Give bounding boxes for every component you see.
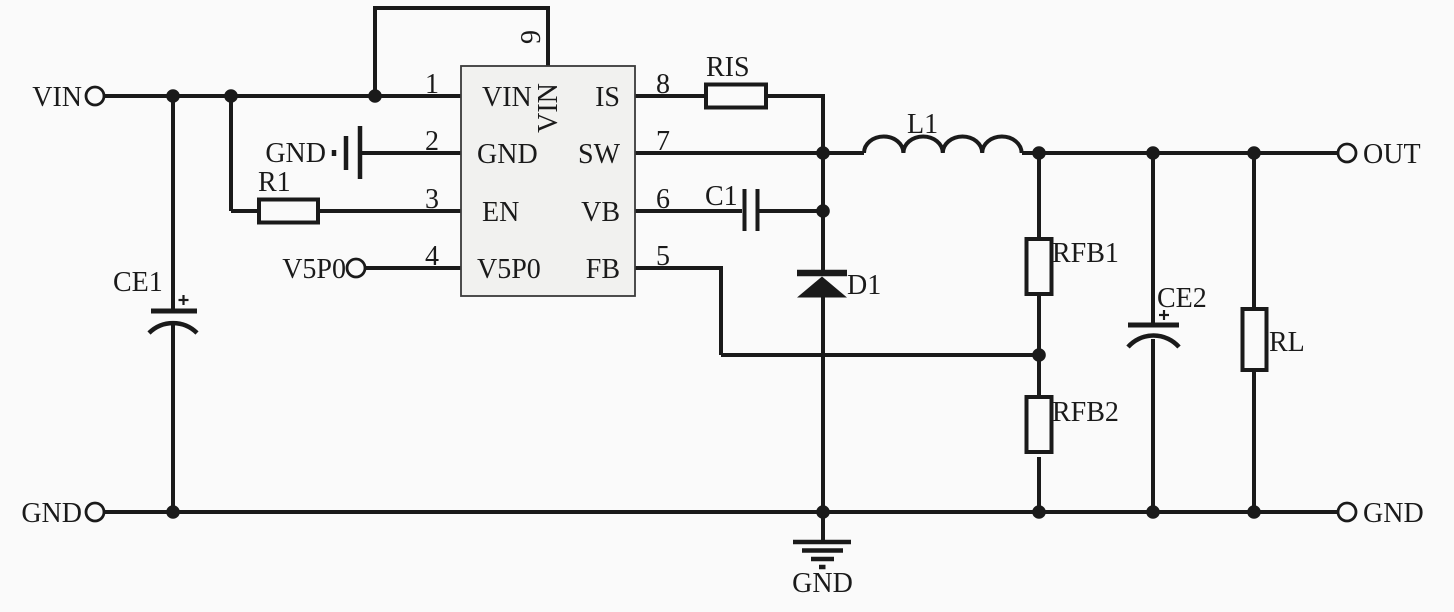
svg-text:VIN: VIN [482,82,532,113]
junction dot OUT-RFB1 [1032,146,1046,160]
wire V5P0 to pin 4 [365,266,461,270]
resistor R1 [259,200,318,223]
svg-text:VIN: VIN [533,83,564,133]
wire FB vertical [719,266,723,355]
terminal GND right [1338,503,1356,521]
junction dot OUT-CE2 [1146,146,1160,160]
svg-text:CE1: CE1 [113,267,163,298]
junction dot VIN-R1 [224,89,238,103]
capacitor C1 [745,189,758,231]
wire RFB1-RFB2 middle [1037,294,1041,397]
capacitor CE2 [1128,310,1179,347]
svg-text:GND: GND [265,138,326,169]
wire RL top lead [1252,153,1256,309]
ground symbol bottom [793,542,851,567]
wire top loop horizontal [373,6,550,10]
wire top loop vertical left [373,8,377,96]
wire R1 left lead [231,209,259,213]
svg-text:6: 6 [656,184,670,215]
wire R1 branch vertical [229,96,233,211]
wire pin 6 to C1 [635,209,742,213]
junction dot VIN-CE1 [166,89,180,103]
junction dot SW node [816,146,830,160]
svg-text:EN: EN [482,197,519,228]
wire CE1 bottom [171,325,175,512]
svg-text:IS: IS [595,82,620,113]
svg-text:GND: GND [1363,498,1424,529]
svg-text:SW: SW [578,139,621,170]
wire D1 anode down to ground rail [821,297,825,512]
wire RL bottom lead [1252,370,1256,512]
wire CE1 top [171,96,175,311]
svg-text:RIS: RIS [706,52,750,83]
wire RIS to corner [766,94,823,98]
svg-text:GND: GND [477,139,538,170]
junction dot GND-CE1 [166,505,180,519]
svg-text:9: 9 [516,30,547,44]
capacitor CE1 [149,295,197,333]
svg-text:V5P0: V5P0 [477,254,541,285]
terminal VIN [86,87,104,105]
svg-text:2: 2 [425,126,439,157]
svg-text:4: 4 [425,241,439,272]
resistor RFB1 [1027,239,1052,294]
svg-text:RFB2: RFB2 [1052,397,1119,428]
resistor RFB2 [1027,397,1052,452]
terminal GND left [86,503,104,521]
junction dot GND-RL [1247,505,1261,519]
junction dot GND-RFB2 [1032,505,1046,519]
junction dot VIN-top loop [368,89,382,103]
wire R1 right lead to pin 3 [318,209,461,213]
junction dot FB divider [1032,348,1046,362]
svg-text:D1: D1 [847,270,881,301]
svg-text:FB: FB [586,254,620,285]
svg-text:CE2: CE2 [1157,283,1207,314]
svg-text:OUT: OUT [1363,139,1421,170]
wire pin 7 SW to L1 [635,151,864,155]
wire pin 9 drop [546,6,550,66]
resistor RIS [706,85,766,108]
wire C1 to SW column [759,209,823,213]
wire RFB2 bottom lead [1037,457,1041,512]
wire pin 5 FB lead [635,266,721,270]
wire GND symbol to pin 2 [362,151,461,155]
svg-text:R1: R1 [258,167,291,198]
svg-text:VIN: VIN [32,82,82,113]
svg-text:7: 7 [656,126,670,157]
wire GND rail [104,510,1338,514]
wire ground stub [821,512,825,542]
junction dot GND-CE2 [1146,505,1160,519]
svg-text:1: 1 [425,69,439,100]
junction dot GND-D1 [816,505,830,519]
IC U1 body [461,66,635,296]
resistor RL [1243,309,1267,370]
diode D1 [797,273,847,298]
svg-text:8: 8 [656,69,670,100]
svg-text:5: 5 [656,241,670,272]
terminal OUT [1338,144,1356,162]
wire RIS corner down to SW node [821,94,825,153]
wire pin 8 to RIS [635,94,706,98]
wire CE2 bottom lead [1151,339,1155,512]
junction dot VB node [816,204,830,218]
wire SW node down to D1 cathode [821,153,825,271]
wire CE2 top lead [1151,153,1155,325]
svg-text:3: 3 [425,184,439,215]
wire L1 to OUT [1022,151,1338,155]
terminal V5P0 [347,259,365,277]
svg-text:L1: L1 [907,109,938,140]
svg-text:GND: GND [21,498,82,529]
junction dot OUT-RL [1247,146,1261,160]
wire FB to divider node [721,353,1039,357]
svg-text:GND: GND [792,568,853,599]
inductor L1 [864,137,1022,154]
svg-text:C1: C1 [705,181,738,212]
wire VIN rail [104,94,461,98]
svg-text:V5P0: V5P0 [282,254,346,285]
svg-text:VB: VB [581,197,620,228]
wire RFB1 top lead [1037,153,1041,239]
svg-text:RL: RL [1269,327,1305,358]
ground symbol at pin 2 [334,126,360,179]
svg-text:RFB1: RFB1 [1052,238,1119,269]
